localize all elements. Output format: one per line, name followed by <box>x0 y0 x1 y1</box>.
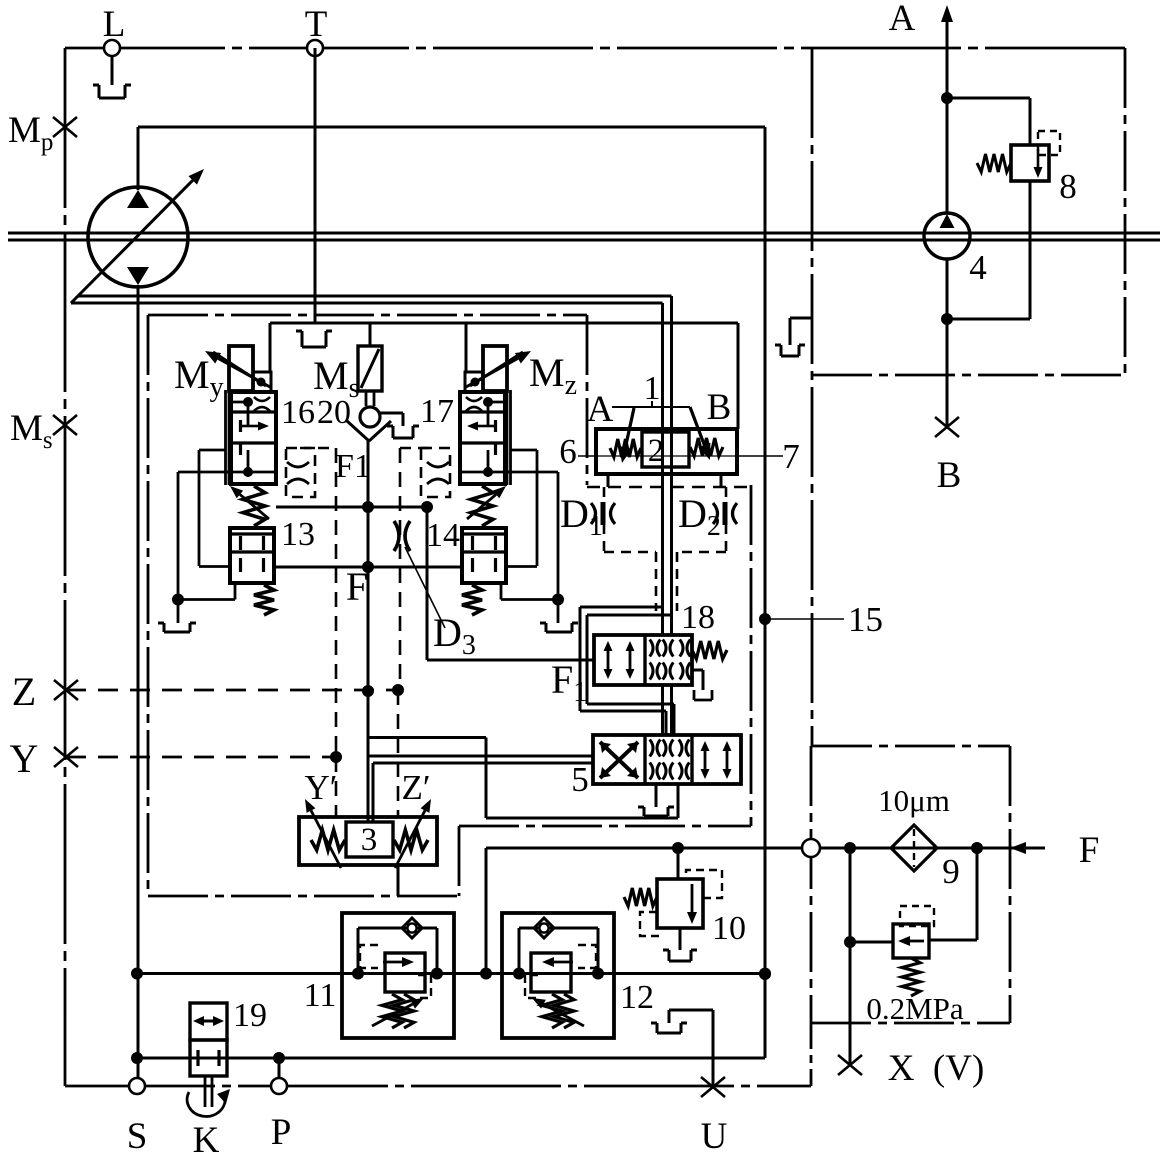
svg-text:20: 20 <box>317 394 351 431</box>
svg-text:6: 6 <box>559 432 577 471</box>
svg-text:B: B <box>707 387 732 428</box>
svg-text:12: 12 <box>620 979 654 1016</box>
svg-text:0.2MPa: 0.2MPa <box>866 991 964 1026</box>
svg-text:Y: Y <box>10 736 39 781</box>
svg-text:F1: F1 <box>335 448 371 485</box>
svg-text:8: 8 <box>1059 167 1077 206</box>
svg-text:13: 13 <box>281 516 315 553</box>
svg-text:2: 2 <box>648 433 665 469</box>
svg-text:L: L <box>103 4 126 45</box>
svg-text:5: 5 <box>571 760 589 799</box>
svg-text:Z′: Z′ <box>401 768 430 807</box>
svg-text:3: 3 <box>361 822 378 858</box>
svg-text:14: 14 <box>426 517 460 554</box>
svg-text:B: B <box>937 455 962 496</box>
svg-text:U: U <box>701 1116 728 1157</box>
svg-text:Y′: Y′ <box>305 768 338 807</box>
svg-text:18: 18 <box>681 599 715 636</box>
svg-text:A: A <box>889 0 916 39</box>
svg-text:T: T <box>305 4 328 45</box>
svg-text:11: 11 <box>304 977 337 1014</box>
svg-text:19: 19 <box>233 997 267 1034</box>
svg-text:10: 10 <box>712 910 746 947</box>
svg-text:F: F <box>1079 830 1100 871</box>
svg-text:15: 15 <box>848 600 883 639</box>
svg-text:P: P <box>271 1112 292 1153</box>
svg-text:A: A <box>587 389 614 430</box>
svg-text:7: 7 <box>782 437 800 476</box>
svg-text:4: 4 <box>969 248 987 287</box>
svg-text:S: S <box>127 1116 148 1157</box>
svg-text:K: K <box>193 1120 220 1157</box>
svg-text:F: F <box>346 564 368 609</box>
svg-text:Z: Z <box>12 669 36 714</box>
svg-text:9: 9 <box>942 852 960 891</box>
svg-text:10μm: 10μm <box>878 783 950 818</box>
svg-text:17: 17 <box>420 393 454 430</box>
svg-text:X (V): X (V) <box>888 1048 985 1089</box>
svg-text:16: 16 <box>281 394 315 431</box>
